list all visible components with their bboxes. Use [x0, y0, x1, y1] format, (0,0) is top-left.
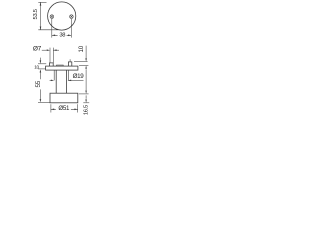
- arrowhead dia7 right: [53, 49, 56, 51]
- svg-text:38: 38: [59, 32, 65, 38]
- left bottom extension line: [38, 102, 50, 104]
- right small dim extension lower: [79, 64, 88, 66]
- right tab (screw boss): [68, 62, 71, 66]
- left screw hole: [50, 15, 54, 19]
- left tab (screw boss): [50, 63, 54, 66]
- dia7 extension bar right: [52, 48, 54, 63]
- arrowhead 38 left: [52, 35, 55, 37]
- arrowhead 53.5 bottom: [40, 27, 42, 30]
- arrowhead 38 right: [68, 35, 71, 37]
- dim dia51 extension right: [77, 104, 79, 112]
- dia7 leader right tail: [53, 49, 59, 51]
- arrowhead 16.5 top: [85, 91, 87, 94]
- svg-text:Ø7: Ø7: [33, 46, 42, 53]
- left height dim line: [39, 72, 41, 99]
- arrowhead 53.5 top: [40, 2, 42, 5]
- left small dim extension upper: [38, 63, 46, 65]
- left small dim extension lower (to plate): [38, 68, 46, 70]
- dia7 extension bar left: [49, 48, 51, 63]
- dia19 leader left tail: [50, 79, 52, 81]
- center bump on plate: [57, 65, 64, 66]
- top view circle: [48, 2, 76, 30]
- stem line left: [55, 70, 57, 93]
- arrowhead dia19 left: [51, 80, 54, 82]
- base plate: [50, 93, 78, 103]
- dia19 leader right line: [68, 79, 84, 81]
- arrowhead left small dim down: [40, 60, 42, 63]
- dim 16.5 lower arrow stub: [85, 95, 87, 98]
- arrowhead dia19 right: [68, 80, 71, 82]
- dim 38 extension line left: [51, 19, 53, 38]
- svg-text:Ø19: Ø19: [73, 73, 85, 80]
- dim dia51 line: [51, 108, 78, 110]
- arrowhead 16.5 bottom: [85, 99, 87, 102]
- right tab tick: [69, 59, 71, 62]
- right small dim line upper: [85, 46, 87, 59]
- svg-text:10: 10: [78, 45, 85, 52]
- arrowhead left height top: [40, 69, 42, 72]
- svg-text:16.5: 16.5: [83, 105, 89, 115]
- flange plate: [46, 66, 78, 70]
- arrowhead left height bottom: [40, 99, 42, 102]
- arrowhead dia51 left: [51, 109, 54, 111]
- background: [0, 0, 120, 120]
- dim 53.5 line: [40, 2, 42, 30]
- svg-text:Ø51: Ø51: [58, 105, 70, 112]
- right dim line middle: [85, 69, 87, 90]
- svg-text:55: 55: [35, 80, 42, 87]
- svg-text:53.5: 53.5: [33, 9, 39, 19]
- dia7 leader left: [42, 49, 47, 51]
- collar line left: [53, 70, 55, 80]
- arrowhead dia51 right: [74, 109, 77, 111]
- right small dim extension upper: [74, 61, 88, 63]
- stem line right: [66, 70, 68, 93]
- svg-text:10: 10: [34, 65, 39, 70]
- arrowhead right small dim down: [85, 58, 87, 61]
- dim dia51 extension left: [50, 104, 52, 112]
- collar line right: [67, 70, 69, 80]
- dim 53.5 extension line bottom: [38, 29, 58, 31]
- dim 53.5 extension line top: [38, 1, 46, 3]
- base top extension line right: [79, 93, 89, 95]
- left small dim line upper: [39, 58, 41, 61]
- arrowhead right small dim up: [85, 66, 87, 69]
- dim 38 extension line right: [70, 19, 72, 38]
- base bottom extension line right: [83, 102, 89, 104]
- right screw hole: [70, 15, 74, 19]
- arrowhead dia7 left: [47, 49, 50, 51]
- dim 38 line: [52, 34, 72, 36]
